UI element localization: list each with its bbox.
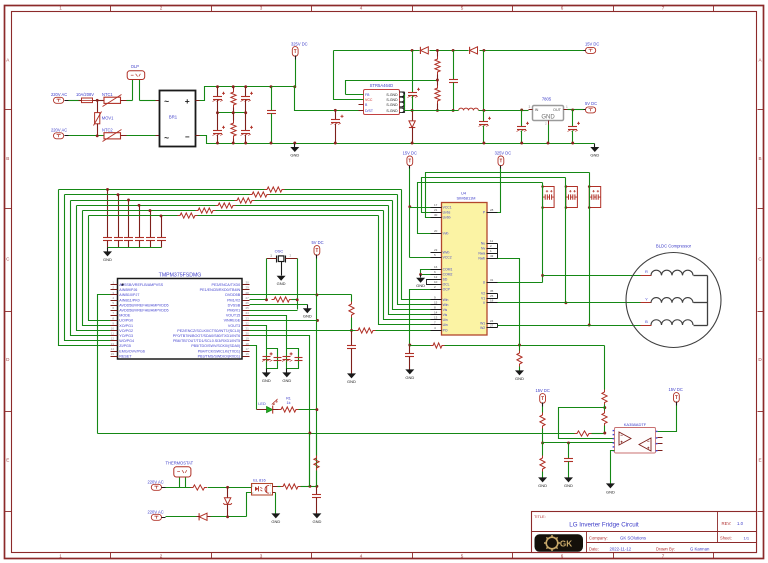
junction zener bottom xyxy=(226,515,229,518)
svg-text:GND: GND xyxy=(262,378,271,383)
svg-text:18: 18 xyxy=(490,299,494,303)
junction ref node xyxy=(541,441,544,444)
junction ground bus g8 xyxy=(482,142,485,145)
wire pf0 drop join xyxy=(309,434,311,487)
wire J2 to NTC2 xyxy=(69,135,105,137)
junction bus cap 4 xyxy=(138,204,141,207)
microcontroller U3 TMPM375FSDMG xyxy=(111,272,250,359)
svg-text:GND: GND xyxy=(538,483,547,488)
svg-text:~: ~ xyxy=(164,96,169,106)
svg-text:ZI/PG5: ZI/PG5 xyxy=(119,344,131,348)
wire 325V to P pin xyxy=(498,169,501,213)
junction bus cap 2 xyxy=(117,193,120,196)
svg-text:GND: GND xyxy=(515,376,524,381)
svg-text:D/ST: D/ST xyxy=(365,109,374,113)
junction FB divider xyxy=(436,79,439,82)
wire 15V rail sim xyxy=(410,169,431,258)
resistor R16 osc xyxy=(272,297,293,302)
connector J2 220V AC neutral xyxy=(51,127,69,139)
svg-text:PF0/TB7IN/BOOT/SDA0/S80/TXD1/I: PF0/TB7IN/BOOT/SDA0/S80/TXD1/INT6 xyxy=(173,334,240,338)
junction divider tap xyxy=(603,406,606,409)
title block company xyxy=(589,536,646,541)
svg-text:1/1: 1/1 xyxy=(744,536,750,541)
wire N pins bracket xyxy=(498,244,520,346)
junction bus C3 xyxy=(270,85,273,88)
connector 5V DC out xyxy=(584,101,598,113)
svg-text:OSC: OSC xyxy=(275,248,284,253)
wire filter cap common xyxy=(108,247,162,249)
svg-text:E: E xyxy=(6,458,9,463)
svg-text:YO/PG3: YO/PG3 xyxy=(119,334,133,338)
junction ground bus g7 xyxy=(411,142,414,145)
svg-text:VOUT3: VOUT3 xyxy=(228,324,240,328)
svg-text:Y: Y xyxy=(645,297,648,302)
junction DVDD5B 5V rail xyxy=(315,293,318,296)
svg-text:GND: GND xyxy=(277,281,286,286)
svg-text:B: B xyxy=(758,156,761,161)
capacitor C31 opto xyxy=(312,487,321,514)
svg-text:OUT: OUT xyxy=(553,108,562,112)
svg-text:GND: GND xyxy=(541,115,555,121)
op-amp U6 KA358ADTF xyxy=(613,422,658,453)
fuse F1 10A/208V xyxy=(76,92,98,103)
resistor gate R10 xyxy=(265,187,285,192)
svg-text:W1: W1 xyxy=(480,321,485,325)
svg-text:220V AC: 220V AC xyxy=(148,479,164,484)
svg-text:6: 6 xyxy=(561,6,564,11)
junction bus 325V tap xyxy=(293,85,296,88)
wire R18 to PO xyxy=(376,330,431,332)
svg-text:28: 28 xyxy=(490,208,494,212)
wire PWM bus 1 left drop xyxy=(59,190,111,346)
capacitor C6 bus xyxy=(267,87,276,144)
capacitor group C27 xyxy=(262,349,282,369)
resistor R24 pullup xyxy=(314,434,319,487)
ground symbol right xyxy=(590,144,599,158)
capacitor filter C21 xyxy=(114,195,123,248)
wire PWM bus 2 right drop xyxy=(398,195,431,305)
overload protector OLP xyxy=(127,64,145,101)
svg-text:5: 5 xyxy=(461,6,464,11)
svg-text:Nwa: Nwa xyxy=(478,251,485,255)
wire J4 to D4 xyxy=(166,516,197,518)
wire ref to opamp xyxy=(543,442,615,444)
wire R23 to 5V rail xyxy=(301,486,317,488)
wire primary ground bus xyxy=(218,143,595,145)
junction bus C2 xyxy=(244,85,247,88)
svg-text:AINB11/PK0: AINB11/PK0 xyxy=(119,298,139,302)
junction ref cap xyxy=(567,441,570,444)
svg-text:−: − xyxy=(185,133,190,142)
bridge rectifier BR1 xyxy=(160,91,196,147)
svg-text:RESET: RESET xyxy=(119,354,132,358)
wire VOUT15 drop xyxy=(250,316,287,349)
capacitor C1 upper xyxy=(213,87,226,113)
ground symbol filter caps xyxy=(103,248,112,262)
wire AINB10 sense line xyxy=(98,295,111,434)
svg-text:21: 21 xyxy=(434,208,438,212)
resistor gate R15 xyxy=(178,213,198,218)
pin stubs U1 left xyxy=(359,95,364,111)
svg-text:GND: GND xyxy=(103,257,112,262)
inverter module U4 SIM6811M xyxy=(431,191,498,335)
resistor R22 xyxy=(191,485,208,490)
ground symbol DVSSB xyxy=(303,305,312,319)
capacitor C2 upper xyxy=(241,87,254,113)
svg-text:3: 3 xyxy=(260,6,263,11)
svg-text:COM1: COM1 xyxy=(443,267,453,271)
wire OSC right leg xyxy=(297,259,299,310)
svg-text:PE3/ENCA/TXD0: PE3/ENCA/TXD0 xyxy=(211,283,240,287)
junction mid C2 xyxy=(244,111,247,114)
SMPS IC U1 STR5A464D xyxy=(364,83,400,114)
svg-text:11: 11 xyxy=(111,332,114,336)
svg-text:GND: GND xyxy=(416,283,425,288)
junction bus cap 3 xyxy=(127,199,130,202)
resistor R23 xyxy=(281,484,301,489)
resistor R1 1k xyxy=(279,396,299,412)
resistor R21 shunt gnd xyxy=(517,346,522,371)
svg-text:17: 17 xyxy=(434,203,438,207)
wire VINREGE xyxy=(250,320,318,322)
wire PM1/X2 xyxy=(250,299,267,301)
LED LED1 xyxy=(257,399,279,414)
wire VOUT3 drop xyxy=(250,326,267,349)
svg-text:R: R xyxy=(645,269,648,274)
wire J3 to R22 xyxy=(166,487,191,489)
svg-text:LG Inverter Fridge Circuit: LG Inverter Fridge Circuit xyxy=(569,522,639,529)
power flag 15V DC sim xyxy=(403,151,417,169)
junction V phase xyxy=(564,301,567,304)
svg-text:TITLE:: TITLE: xyxy=(534,514,546,519)
svg-text:Vis: Vis xyxy=(443,308,448,312)
svg-text:1.0: 1.0 xyxy=(737,521,744,526)
wire cap bank midpoint xyxy=(218,112,246,114)
optocoupler U5 EL816 xyxy=(252,478,273,495)
svg-text:5V DC: 5V DC xyxy=(585,101,597,106)
junction 5V node xyxy=(571,108,574,111)
svg-text:THERMOSTAT: THERMOSTAT xyxy=(166,460,194,465)
wire PWM bus 4 left drop xyxy=(77,206,111,331)
wire OLP to BR1 xyxy=(140,100,160,102)
junction bus C1 xyxy=(216,85,219,88)
wire R1 to 5V rail xyxy=(299,409,317,411)
svg-text:20: 20 xyxy=(434,229,438,233)
svg-text:15V DC: 15V DC xyxy=(585,42,599,47)
svg-text:STR5A464D: STR5A464D xyxy=(370,83,394,88)
bridge W1-W2 pins xyxy=(497,324,499,328)
resistor R4 xyxy=(435,51,440,81)
diode D4 xyxy=(197,513,211,520)
power flag 325V DC xyxy=(291,41,308,86)
diode D3 xyxy=(409,111,415,144)
svg-text:EMG/OVV/PG6: EMG/OVV/PG6 xyxy=(119,349,145,353)
svg-text:15V DC: 15V DC xyxy=(403,151,417,156)
wire PE2 trace xyxy=(250,330,356,332)
svg-text:21: 21 xyxy=(246,327,250,331)
junction ground bus g5 xyxy=(293,142,296,145)
junction ground bus g11 xyxy=(571,142,574,145)
power flag 5V DC mcu xyxy=(312,240,324,294)
svg-text:LED: LED xyxy=(258,402,266,406)
svg-text:AVDD5B/VREFHB/AMPVDD5: AVDD5B/VREFHB/AMPVDD5 xyxy=(119,309,168,313)
junction ground bus g2 xyxy=(232,142,235,145)
svg-text:PB5/TDO/SWV/SCK0/(SDA0): PB5/TDO/SWV/SCK0/(SDA0) xyxy=(191,344,240,348)
resistor R2 upper bleeder xyxy=(231,87,236,113)
svg-text:3: 3 xyxy=(260,554,263,559)
svg-text:R1: R1 xyxy=(286,396,291,400)
svg-text:GND: GND xyxy=(606,489,615,494)
svg-text:SD: SD xyxy=(443,278,448,282)
svg-text:S-GND: S-GND xyxy=(386,109,398,113)
junction OSC left xyxy=(265,298,268,301)
svg-text:AINB10/PJ7: AINB10/PJ7 xyxy=(119,293,139,297)
junction aux bus c xyxy=(452,109,455,112)
wire divider chain top xyxy=(604,346,606,390)
svg-text:GND: GND xyxy=(564,483,573,488)
svg-text:VINREGE: VINREGE xyxy=(224,319,241,323)
svg-text:S-GND: S-GND xyxy=(386,93,398,97)
junction bus R2 xyxy=(232,85,235,88)
junction VCC1 node xyxy=(408,205,411,208)
junction ground bus g3 xyxy=(244,142,247,145)
svg-text:NTC2: NTC2 xyxy=(102,127,113,132)
svg-text:15: 15 xyxy=(111,352,115,356)
svg-text:7805: 7805 xyxy=(542,97,552,102)
svg-text:Nwb: Nwb xyxy=(478,256,485,260)
svg-text:15: 15 xyxy=(434,301,438,305)
diode D2 xyxy=(470,47,478,54)
svg-text:AVDD5B/VREFHB/AMPVDD5: AVDD5B/VREFHB/AMPVDD5 xyxy=(119,303,168,307)
capacitor C4 lower xyxy=(213,113,226,144)
junction ground bus g6 xyxy=(334,142,337,145)
svg-text:Uin: Uin xyxy=(443,323,448,327)
wire W phase riser xyxy=(589,173,591,326)
wire FB loop xyxy=(346,81,438,95)
svg-text:DVDD5B: DVDD5B xyxy=(225,293,240,297)
svg-text:16: 16 xyxy=(246,352,250,356)
ground symbol R21 xyxy=(515,370,524,380)
svg-text:PE2/ENCZ/SCLK0/CTS0/INT7/(SCL0: PE2/ENCZ/SCLK0/CTS0/INT7/(SCL0) xyxy=(177,329,240,333)
svg-text:25: 25 xyxy=(246,306,250,310)
resistor gate R11 xyxy=(250,192,270,197)
svg-text:V1: V1 xyxy=(481,296,485,300)
junction shunt node a xyxy=(408,344,411,347)
svg-text:30: 30 xyxy=(246,281,250,285)
compressor windings R Y B xyxy=(641,269,708,325)
wire 15V top bus xyxy=(334,50,584,52)
svg-text:PM1/X2: PM1/X2 xyxy=(227,298,240,302)
junction aux bus a xyxy=(411,109,414,112)
ground symbol capgroup 1 xyxy=(262,369,271,383)
wire PWM bus 4 right drop xyxy=(389,206,431,315)
thermostat TH1 xyxy=(166,460,194,487)
junction 7805 input node xyxy=(520,108,523,111)
junction sense pf0 xyxy=(308,432,311,435)
svg-text:BLDC Compressor: BLDC Compressor xyxy=(656,244,692,249)
svg-text:AVSSB/VREFLB/AMPVSS: AVSSB/VREFLB/AMPVSS xyxy=(119,283,163,287)
svg-text:VCC: VCC xyxy=(365,98,373,102)
svg-text:PB3/TMS/SWDIO/(RXD1): PB3/TMS/SWDIO/(RXD1) xyxy=(198,354,241,358)
capacitor C12 xyxy=(568,110,581,144)
svg-text:35: 35 xyxy=(490,289,494,293)
svg-text:10: 10 xyxy=(434,280,438,284)
svg-text:3: 3 xyxy=(529,105,531,109)
resistor R3 lower bleeder xyxy=(231,113,236,144)
connector 15V DC out xyxy=(584,42,600,54)
svg-text:14: 14 xyxy=(111,347,115,351)
wire VCC loop xyxy=(334,51,364,100)
junction R1 5V xyxy=(315,408,318,411)
svg-text:S-GND: S-GND xyxy=(386,98,398,102)
svg-text:Win: Win xyxy=(443,298,449,302)
capacitor filter C22 xyxy=(124,201,133,248)
svg-text:1: 1 xyxy=(59,6,62,11)
wire PWM bus 5 left drop xyxy=(83,211,111,326)
varistor MOV1 xyxy=(94,101,115,136)
svg-text:220V AC: 220V AC xyxy=(51,92,67,97)
svg-text:V2: V2 xyxy=(481,291,485,295)
svg-text:IN: IN xyxy=(535,108,539,112)
svg-text:13: 13 xyxy=(434,316,438,320)
resistor gate R14 xyxy=(196,208,216,213)
capacitor C26 xyxy=(347,331,356,374)
ground symbol C31 xyxy=(312,513,321,523)
svg-text:20: 20 xyxy=(246,332,250,336)
ground symbol R29 xyxy=(538,477,547,487)
bootstrap capacitors group 2 xyxy=(565,185,578,209)
svg-text:1: 1 xyxy=(289,253,291,257)
title block frame xyxy=(532,512,757,553)
wire J1 to fuse xyxy=(69,100,82,102)
capacitor filter C24 xyxy=(146,211,155,248)
svg-text:26: 26 xyxy=(246,301,250,305)
svg-text:UO/PG0: UO/PG0 xyxy=(119,319,133,323)
svg-text:28: 28 xyxy=(246,291,250,295)
wire VCC1 stub xyxy=(410,207,431,209)
wire thermo sense long xyxy=(98,433,605,435)
svg-text:6: 6 xyxy=(561,554,564,559)
svg-text:KA358ADTF: KA358ADTF xyxy=(624,422,647,427)
svg-text:E: E xyxy=(758,458,761,463)
junction ground bus g9 xyxy=(520,142,523,145)
power flag 325V DC sim xyxy=(495,151,512,169)
svg-text:NTC1: NTC1 xyxy=(102,92,113,97)
junction VINREGE node xyxy=(316,319,319,322)
wire bootstrap top W xyxy=(418,183,543,234)
svg-text:PB4/TCK/SWCLK/(TXD1): PB4/TCK/SWCLK/(TXD1) xyxy=(198,349,240,353)
title block title xyxy=(534,514,639,528)
BLDC compressor outline xyxy=(626,244,721,348)
capacitor C5 lower xyxy=(241,113,254,144)
svg-text:Drawn By:: Drawn By: xyxy=(656,546,675,551)
regulator U2 7805 xyxy=(529,97,569,126)
pin stub 7805 in xyxy=(529,109,533,111)
svg-text:Vvb: Vvb xyxy=(443,232,449,236)
wire phase R to motor xyxy=(543,275,641,277)
thermistor NTC2 xyxy=(102,127,122,141)
svg-text:1: 1 xyxy=(59,554,62,559)
svg-text:Win: Win xyxy=(443,303,449,307)
resistor R20 shunt xyxy=(431,343,445,348)
svg-text:24: 24 xyxy=(246,311,250,315)
pin stub 7805 gnd xyxy=(548,121,550,144)
junction top bus c xyxy=(452,49,455,52)
wire PWM bus 3 right drop xyxy=(393,201,431,310)
svg-text:1k: 1k xyxy=(286,401,290,405)
wire U1 S-GND bus xyxy=(404,95,406,111)
svg-text:Vis: Vis xyxy=(443,313,448,317)
wire 15Vaux to C10 xyxy=(483,51,485,111)
svg-text:3: 3 xyxy=(270,254,272,258)
wire D4 to opto cathode xyxy=(211,493,252,517)
junction snubber cap node xyxy=(334,109,337,112)
svg-text:VOUT15: VOUT15 xyxy=(226,314,240,318)
svg-text:~: ~ xyxy=(164,133,169,143)
wire BR1 minus to ground bus xyxy=(196,136,218,144)
wire phase Y to motor xyxy=(498,302,641,304)
resistor R25 xyxy=(602,390,607,406)
capacitor filter C25 xyxy=(157,216,166,248)
svg-text:17: 17 xyxy=(246,347,250,351)
wire opamp stubs right xyxy=(658,438,663,451)
svg-text:Sheet:: Sheet: xyxy=(720,536,732,541)
svg-text:325V DC: 325V DC xyxy=(495,151,512,156)
svg-text:7: 7 xyxy=(662,554,665,559)
svg-text:Wvb: Wvb xyxy=(443,251,450,255)
ground symbol emitter xyxy=(271,513,280,523)
svg-text:Date:: Date: xyxy=(589,546,599,551)
svg-text:+: + xyxy=(185,96,190,106)
junction opto node 5V xyxy=(315,485,318,488)
svg-text:VO/PG2: VO/PG2 xyxy=(119,329,133,333)
junction fuse-MOV node xyxy=(96,99,99,102)
junction ground bus g1 xyxy=(216,142,219,145)
wire fuse to NTC1 xyxy=(98,100,105,102)
svg-text:19: 19 xyxy=(246,337,250,341)
junction aux bus b xyxy=(436,109,439,112)
wire PWM bus 6 left drop xyxy=(89,216,111,321)
junction W phase xyxy=(588,324,591,327)
wire BR1 plus output xyxy=(196,87,218,101)
compressor star bus xyxy=(707,276,709,326)
title block sheet xyxy=(720,536,750,541)
resistor R26 xyxy=(602,411,607,427)
svg-text:SIM6811M: SIM6811M xyxy=(456,196,475,201)
svg-text:GK SOlutions: GK SOlutions xyxy=(620,536,646,541)
junction mid R2 xyxy=(232,111,235,114)
svg-text:GND: GND xyxy=(290,152,299,157)
wire bootstrap top V xyxy=(422,178,566,213)
resistor R28 xyxy=(540,407,545,443)
svg-text:GND: GND xyxy=(405,375,414,380)
svg-text:23: 23 xyxy=(246,316,250,320)
junction bus cap 5 xyxy=(149,209,152,212)
svg-text:PO: PO xyxy=(443,329,448,333)
wire opto emitter xyxy=(273,493,276,514)
inductor L1 xyxy=(459,108,479,110)
junction top bus a xyxy=(411,49,414,52)
svg-text:AINB9/PJ6: AINB9/PJ6 xyxy=(119,288,137,292)
diode D1 xyxy=(420,47,428,54)
ground symbol C30 xyxy=(405,369,414,379)
svg-text:OCP: OCP xyxy=(443,288,451,292)
pin coils U1 S-GND xyxy=(399,92,404,113)
svg-text:15V DC: 15V DC xyxy=(669,387,683,392)
svg-text:23: 23 xyxy=(434,248,438,252)
wire PWM bus 1 horizontal xyxy=(59,189,402,191)
svg-text:WO/PG4: WO/PG4 xyxy=(119,339,134,343)
